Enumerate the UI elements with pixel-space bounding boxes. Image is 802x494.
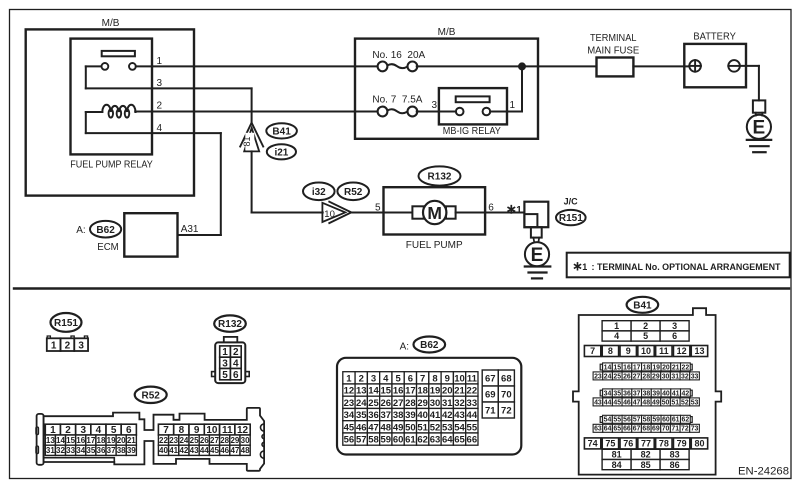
svg-text:49: 49 [652, 399, 660, 406]
svg-text:77: 77 [641, 439, 651, 449]
B41 row 14-22 [600, 364, 602, 370]
svg-text:3: 3 [672, 321, 677, 331]
svg-text:9: 9 [626, 346, 631, 356]
svg-text:71: 71 [485, 405, 496, 416]
svg-text:3: 3 [432, 100, 438, 111]
svg-text:B41: B41 [272, 127, 291, 138]
svg-text:17: 17 [86, 436, 95, 445]
connector ref R151 (view) [51, 313, 82, 332]
wire: coil left leg to pin 4 [86, 111, 103, 113]
svg-text:18: 18 [643, 364, 651, 371]
svg-text:37: 37 [633, 390, 641, 397]
wire: MB-IG relay internal leads [439, 111, 456, 113]
svg-text:24: 24 [179, 436, 188, 445]
svg-text:B62: B62 [96, 225, 115, 236]
svg-text:50: 50 [662, 399, 670, 406]
svg-text:57: 57 [356, 435, 367, 446]
svg-text:6: 6 [408, 373, 413, 384]
svg-text:1: 1 [51, 340, 57, 351]
svg-text:25: 25 [190, 436, 199, 445]
svg-text:28: 28 [220, 436, 229, 445]
svg-text:2: 2 [65, 340, 71, 351]
svg-text:64: 64 [604, 426, 612, 433]
svg-text:53: 53 [691, 399, 699, 406]
wire into motor [384, 212, 413, 214]
svg-text:75: 75 [605, 439, 615, 449]
svg-text:19: 19 [107, 436, 116, 445]
svg-text:i32: i32 [312, 187, 326, 198]
svg-text:R132: R132 [218, 319, 242, 330]
battery box [684, 44, 746, 87]
svg-text:59: 59 [381, 435, 392, 446]
svg-text:21: 21 [672, 364, 680, 371]
svg-text:No. 16 20A: No. 16 20A [372, 50, 425, 61]
svg-text:14: 14 [56, 436, 65, 445]
svg-text:7: 7 [590, 346, 595, 356]
svg-text:36: 36 [623, 390, 631, 397]
svg-text:30: 30 [662, 373, 670, 380]
svg-text:69: 69 [485, 389, 496, 400]
MB-IG relay box [439, 88, 507, 124]
svg-text:78: 78 [659, 439, 669, 449]
svg-text:44: 44 [467, 410, 478, 421]
svg-text:42: 42 [682, 390, 690, 397]
connector ref R132 (fuel pump) [419, 166, 461, 185]
connector symbol i32/R52 (triangle, pin 10) [329, 202, 351, 223]
svg-text:MB-IG RELAY: MB-IG RELAY [443, 126, 501, 137]
svg-text:48: 48 [642, 399, 650, 406]
svg-text:35: 35 [86, 446, 95, 455]
svg-text:59: 59 [652, 417, 660, 424]
svg-text:24: 24 [604, 373, 612, 380]
svg-text:72: 72 [681, 426, 689, 433]
svg-text:44: 44 [200, 446, 209, 455]
svg-text:A:: A: [400, 341, 409, 352]
svg-text:6: 6 [233, 370, 239, 381]
svg-text:41: 41 [169, 446, 178, 455]
svg-text:67: 67 [633, 426, 641, 433]
svg-text:22: 22 [682, 364, 690, 371]
wire: relay contact branch (pin 1 side) [136, 65, 152, 67]
svg-text:34: 34 [344, 410, 355, 421]
svg-text:FUEL PUMP RELAY: FUEL PUMP RELAY [70, 160, 153, 171]
connector ref B41 [266, 123, 297, 138]
svg-text:3: 3 [78, 340, 84, 351]
svg-text:12: 12 [677, 346, 687, 356]
svg-text:45: 45 [210, 446, 219, 455]
B41 row 63-73 [593, 424, 603, 432]
svg-text:37: 37 [107, 446, 116, 455]
svg-text:21: 21 [454, 386, 465, 397]
svg-text:31: 31 [671, 373, 679, 380]
svg-text:58: 58 [368, 435, 379, 446]
svg-text:56: 56 [344, 435, 355, 446]
svg-text:62: 62 [682, 417, 690, 424]
label *1 (fuel pump side) [510, 206, 512, 213]
svg-text:1: 1 [516, 205, 522, 216]
svg-text:84: 84 [612, 460, 622, 470]
B41 row 43-53 [593, 398, 603, 406]
svg-text:58: 58 [643, 417, 651, 424]
svg-text:22: 22 [467, 386, 478, 397]
svg-text:7: 7 [420, 373, 425, 384]
svg-text:64: 64 [442, 435, 453, 446]
svg-text:EN-24268: EN-24268 [738, 465, 789, 477]
svg-text:21: 21 [127, 436, 136, 445]
svg-text:13: 13 [356, 386, 367, 397]
battery - terminal [728, 60, 740, 72]
svg-text:MAIN FUSE: MAIN FUSE [587, 45, 639, 56]
connector ref R52 (view) [135, 387, 167, 403]
svg-text:6: 6 [672, 331, 677, 341]
svg-text:51: 51 [671, 399, 679, 406]
svg-text:48: 48 [381, 422, 392, 433]
fuel pump box [384, 187, 486, 234]
svg-text:14: 14 [368, 386, 379, 397]
svg-text:19: 19 [430, 386, 441, 397]
svg-text:69: 69 [652, 426, 660, 433]
wire: pin 1 to fuse No.16 [152, 65, 378, 67]
svg-text:M/B: M/B [102, 18, 120, 29]
B41 rows 1-6 [602, 321, 631, 331]
svg-text:5: 5 [395, 373, 401, 384]
svg-text:47: 47 [368, 422, 379, 433]
svg-text:79: 79 [677, 439, 687, 449]
svg-text:26: 26 [623, 373, 631, 380]
connector ref B62 (view) [414, 337, 446, 353]
svg-text:31: 31 [46, 446, 55, 455]
svg-text:5: 5 [375, 203, 381, 214]
junction node [519, 63, 526, 70]
svg-text:BATTERY: BATTERY [693, 31, 736, 42]
svg-text:: TERMINAL No. OPTIONAL ARRANG: : TERMINAL No. OPTIONAL ARRANGEMENT [592, 262, 781, 272]
wire: terminal main fuse to battery [633, 65, 689, 67]
svg-text:55: 55 [613, 417, 621, 424]
terminal main fuse [597, 58, 634, 77]
svg-text:62: 62 [417, 435, 428, 446]
svg-text:8: 8 [608, 346, 613, 356]
svg-text:R151: R151 [54, 318, 78, 329]
svg-text:22: 22 [159, 436, 168, 445]
svg-text:49: 49 [393, 422, 404, 433]
M/B box (middle, fuses) [355, 39, 538, 139]
svg-text:42: 42 [442, 410, 453, 421]
svg-text:28: 28 [405, 398, 416, 409]
R52 pin table left [45, 424, 60, 435]
B62 pin table right [482, 370, 498, 386]
svg-text:18: 18 [417, 386, 428, 397]
svg-text:No. 7 7.5A: No. 7 7.5A [372, 94, 422, 105]
svg-text:32: 32 [454, 398, 465, 409]
svg-text:10: 10 [641, 346, 651, 356]
svg-text:R151: R151 [559, 213, 583, 224]
ground E (battery) [747, 115, 771, 139]
M/B box (left, fuel pump relay) [26, 29, 194, 195]
wire: pin 6 to J/C R151 [485, 212, 524, 214]
svg-text:R52: R52 [344, 187, 363, 198]
svg-text:30: 30 [241, 436, 250, 445]
svg-text:10: 10 [454, 373, 465, 384]
svg-text:18: 18 [97, 436, 106, 445]
svg-text:2: 2 [157, 101, 163, 112]
svg-text:2: 2 [643, 321, 648, 331]
svg-text:36: 36 [97, 446, 106, 455]
B41 row 7-13 [584, 346, 600, 357]
svg-text:52: 52 [681, 399, 689, 406]
svg-text:10: 10 [324, 209, 335, 220]
svg-text:68: 68 [501, 373, 512, 384]
svg-text:34: 34 [604, 390, 612, 397]
svg-text:43: 43 [454, 410, 465, 421]
fuel pump relay contact terminals [102, 63, 109, 70]
svg-text:1: 1 [346, 373, 352, 384]
ground neck (J/C) [531, 227, 542, 237]
fuel pump relay contact bar [102, 51, 135, 56]
MB-IG relay contact terminals [456, 108, 464, 116]
wire: fuse No.16 to junction [417, 65, 522, 67]
wire: connector down and across to i32/R52 [251, 151, 253, 212]
svg-text:50: 50 [405, 422, 416, 433]
connector ref B41 (view) [627, 297, 659, 313]
svg-text:11: 11 [467, 373, 478, 384]
svg-text:8: 8 [432, 373, 437, 384]
svg-text:63: 63 [430, 435, 441, 446]
svg-text:13: 13 [694, 346, 704, 356]
svg-text:24: 24 [356, 398, 367, 409]
svg-text:1: 1 [614, 321, 619, 331]
svg-text:38: 38 [643, 390, 651, 397]
svg-text:TERMINAL: TERMINAL [590, 33, 637, 44]
svg-text:52: 52 [430, 422, 441, 433]
svg-text:33: 33 [66, 446, 75, 455]
B41 row 34-42 [600, 390, 602, 396]
svg-text:71: 71 [671, 426, 679, 433]
svg-text:16: 16 [393, 386, 404, 397]
connector R151 pin view [47, 336, 50, 338]
wire: pin 3 horizontal [86, 87, 252, 89]
svg-text:38: 38 [393, 410, 404, 421]
ground E (fuel pump) [525, 242, 549, 266]
svg-text:3: 3 [371, 373, 376, 384]
svg-text:29: 29 [230, 436, 239, 445]
svg-text:19: 19 [652, 364, 660, 371]
connector symbol B41/i21 (triangle, pin 81) [240, 123, 263, 147]
svg-text:23: 23 [594, 373, 602, 380]
connector ref R132 (view) [214, 315, 246, 331]
svg-text:46: 46 [356, 422, 367, 433]
svg-text:J/C: J/C [564, 197, 578, 208]
svg-text:27: 27 [210, 436, 219, 445]
svg-text:M/B: M/B [438, 27, 456, 38]
svg-text:83: 83 [670, 450, 680, 460]
svg-text:60: 60 [662, 417, 670, 424]
svg-text:57: 57 [633, 417, 641, 424]
svg-text:61: 61 [672, 417, 680, 424]
svg-text:63: 63 [594, 426, 602, 433]
svg-text:38: 38 [117, 446, 126, 455]
svg-text:E: E [531, 245, 544, 266]
motor brush blocks [412, 206, 423, 218]
svg-text:65: 65 [613, 426, 621, 433]
svg-text:R132: R132 [428, 172, 452, 183]
wire: pin 4 to ECM A31 [152, 132, 221, 134]
note box: *1 terminal optional arrangement [567, 253, 790, 278]
B41 rows 81-86 [602, 449, 631, 459]
svg-text:A:: A: [76, 225, 85, 236]
wire: battery - to ground [740, 65, 759, 67]
svg-text:66: 66 [467, 435, 478, 446]
B62 pin table main [343, 372, 355, 384]
svg-text:26: 26 [381, 398, 392, 409]
svg-text:28: 28 [642, 373, 650, 380]
svg-text:33: 33 [467, 398, 478, 409]
svg-text:41: 41 [672, 390, 680, 397]
svg-text:5: 5 [222, 370, 228, 381]
svg-text:17: 17 [633, 364, 641, 371]
svg-text:16: 16 [76, 436, 85, 445]
connector ref B62 (ECM) [90, 221, 121, 238]
svg-text:60: 60 [393, 435, 404, 446]
svg-text:81: 81 [612, 450, 622, 460]
svg-text:17: 17 [405, 386, 416, 397]
svg-text:13: 13 [46, 436, 55, 445]
connector ref R52 [337, 183, 369, 201]
svg-text:37: 37 [381, 410, 392, 421]
connector B41 housing outline [573, 308, 721, 474]
svg-text:1: 1 [157, 56, 163, 67]
wire: pin 3 down to connector B41/i21 [251, 88, 253, 122]
svg-text:34: 34 [76, 446, 85, 455]
svg-text:40: 40 [662, 390, 670, 397]
svg-text:66: 66 [623, 426, 631, 433]
svg-text:i21: i21 [274, 147, 288, 158]
J/C junction connector box [524, 202, 548, 228]
svg-text:47: 47 [633, 399, 641, 406]
svg-text:36: 36 [368, 410, 379, 421]
svg-text:35: 35 [356, 410, 367, 421]
B41 row 23-33 [593, 372, 603, 380]
svg-text:70: 70 [501, 389, 512, 400]
B41 row 54-62 [600, 417, 602, 423]
svg-text:82: 82 [641, 450, 651, 460]
connector ref i21 [267, 144, 296, 159]
svg-text:4: 4 [383, 373, 389, 384]
svg-text:40: 40 [417, 410, 428, 421]
svg-text:45: 45 [344, 422, 355, 433]
svg-text:35: 35 [613, 390, 621, 397]
svg-text:48: 48 [241, 446, 250, 455]
svg-text:39: 39 [127, 446, 136, 455]
connector ref R151 (J/C) [556, 210, 586, 225]
wire: coil right leg (pin 2) [135, 111, 152, 113]
svg-text:B62: B62 [420, 340, 439, 351]
svg-text:61: 61 [405, 435, 416, 446]
svg-text:41: 41 [430, 410, 441, 421]
svg-text:14: 14 [604, 364, 612, 371]
svg-text:65: 65 [454, 435, 465, 446]
svg-text:FUEL PUMP: FUEL PUMP [406, 240, 463, 251]
svg-text:1: 1 [510, 100, 516, 111]
svg-text:20: 20 [662, 364, 670, 371]
svg-text:33: 33 [691, 373, 699, 380]
wire: MB-IG relay pin 1 up to junction [507, 111, 522, 113]
svg-text:81: 81 [242, 136, 252, 146]
svg-text:B41: B41 [633, 300, 652, 311]
svg-text:46: 46 [623, 399, 631, 406]
svg-text:85: 85 [641, 460, 651, 470]
svg-text:54: 54 [454, 422, 465, 433]
svg-text:56: 56 [623, 417, 631, 424]
svg-text:80: 80 [694, 439, 704, 449]
connector R52 housing outline [37, 414, 44, 465]
svg-text:20: 20 [117, 436, 126, 445]
section divider line [14, 287, 789, 289]
wire: pin 2 to fuse No.7 [152, 111, 378, 113]
svg-text:68: 68 [642, 426, 650, 433]
connector R132 pin view [224, 337, 238, 343]
wire: relay contact to pin 3 [86, 65, 102, 67]
svg-text:44: 44 [604, 399, 612, 406]
wire: triangle to fuel pump pin 5 [351, 212, 383, 214]
svg-text:23: 23 [169, 436, 178, 445]
connector B62 housing [337, 358, 521, 455]
svg-text:25: 25 [368, 398, 379, 409]
svg-text:2: 2 [359, 373, 364, 384]
svg-text:16: 16 [623, 364, 631, 371]
wire: M/B to terminal main fuse [522, 65, 597, 67]
svg-text:20: 20 [442, 386, 453, 397]
svg-text:12: 12 [344, 386, 355, 397]
svg-text:25: 25 [613, 373, 621, 380]
connector ref i32 [303, 183, 335, 201]
fuel pump motor [423, 201, 446, 224]
fuel pump relay coil [102, 105, 135, 112]
svg-text:ECM: ECM [97, 242, 119, 253]
svg-text:E: E [753, 118, 766, 139]
svg-text:40: 40 [159, 446, 168, 455]
svg-text:29: 29 [652, 373, 660, 380]
svg-text:5: 5 [643, 331, 648, 341]
svg-text:26: 26 [200, 436, 209, 445]
svg-text:30: 30 [430, 398, 441, 409]
svg-text:9: 9 [445, 373, 450, 384]
svg-text:M: M [427, 203, 442, 223]
svg-text:55: 55 [467, 422, 478, 433]
MB-IG relay contact bar [456, 96, 490, 102]
fuel pump relay box [71, 39, 153, 155]
svg-text:43: 43 [594, 399, 602, 406]
svg-text:15: 15 [66, 436, 75, 445]
svg-text:39: 39 [652, 390, 660, 397]
svg-text:43: 43 [190, 446, 199, 455]
svg-text:27: 27 [393, 398, 404, 409]
svg-text:29: 29 [417, 398, 428, 409]
svg-text:3: 3 [157, 78, 163, 89]
svg-text:70: 70 [662, 426, 670, 433]
wire: motor to pin 6 [456, 212, 486, 214]
wire: fuse No.7 to MB-IG relay pin 3 [417, 111, 439, 113]
R52 pin table right [158, 424, 173, 435]
svg-text:42: 42 [179, 446, 188, 455]
svg-text:1: 1 [582, 262, 587, 272]
svg-text:73: 73 [691, 426, 699, 433]
B41 row 74-80 [584, 438, 600, 449]
svg-text:86: 86 [670, 460, 680, 470]
svg-text:15: 15 [381, 386, 392, 397]
svg-text:27: 27 [633, 373, 641, 380]
svg-text:31: 31 [442, 398, 453, 409]
svg-text:67: 67 [485, 373, 496, 384]
